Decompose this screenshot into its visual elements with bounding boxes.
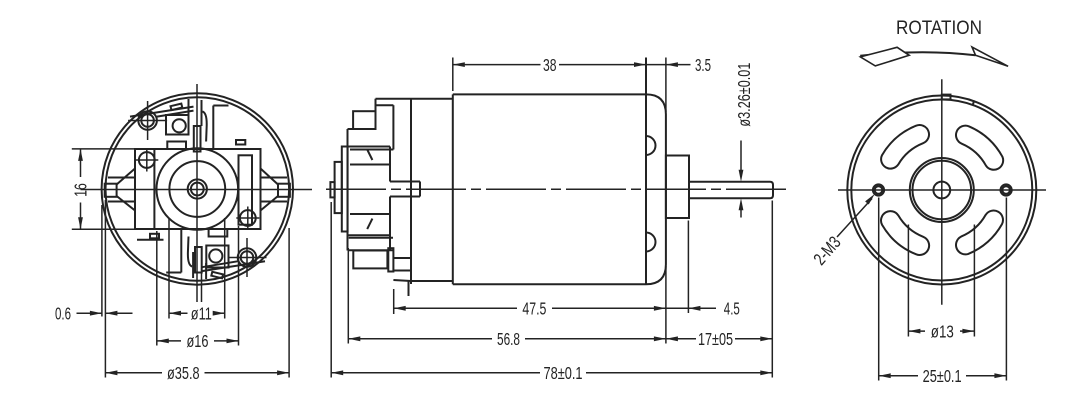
svg-text:25±0.1: 25±0.1 bbox=[923, 366, 962, 386]
svg-text:3.5: 3.5 bbox=[695, 55, 711, 75]
svg-text:16: 16 bbox=[71, 183, 91, 197]
svg-text:ø11: ø11 bbox=[191, 304, 212, 324]
svg-text:56.8: 56.8 bbox=[497, 329, 520, 349]
svg-text:38: 38 bbox=[543, 55, 557, 75]
svg-text:47.5: 47.5 bbox=[522, 299, 546, 319]
svg-text:78±0.1: 78±0.1 bbox=[544, 363, 583, 383]
svg-text:ROTATION: ROTATION bbox=[896, 18, 982, 39]
svg-text:0.6: 0.6 bbox=[55, 304, 71, 324]
svg-text:ø3.26±0.01: ø3.26±0.01 bbox=[734, 63, 754, 127]
svg-text:17±05: 17±05 bbox=[698, 329, 733, 349]
svg-text:ø35.8: ø35.8 bbox=[167, 363, 200, 383]
svg-text:ø16: ø16 bbox=[187, 331, 209, 351]
svg-text:ø13: ø13 bbox=[931, 321, 954, 341]
svg-text:4.5: 4.5 bbox=[724, 299, 740, 319]
